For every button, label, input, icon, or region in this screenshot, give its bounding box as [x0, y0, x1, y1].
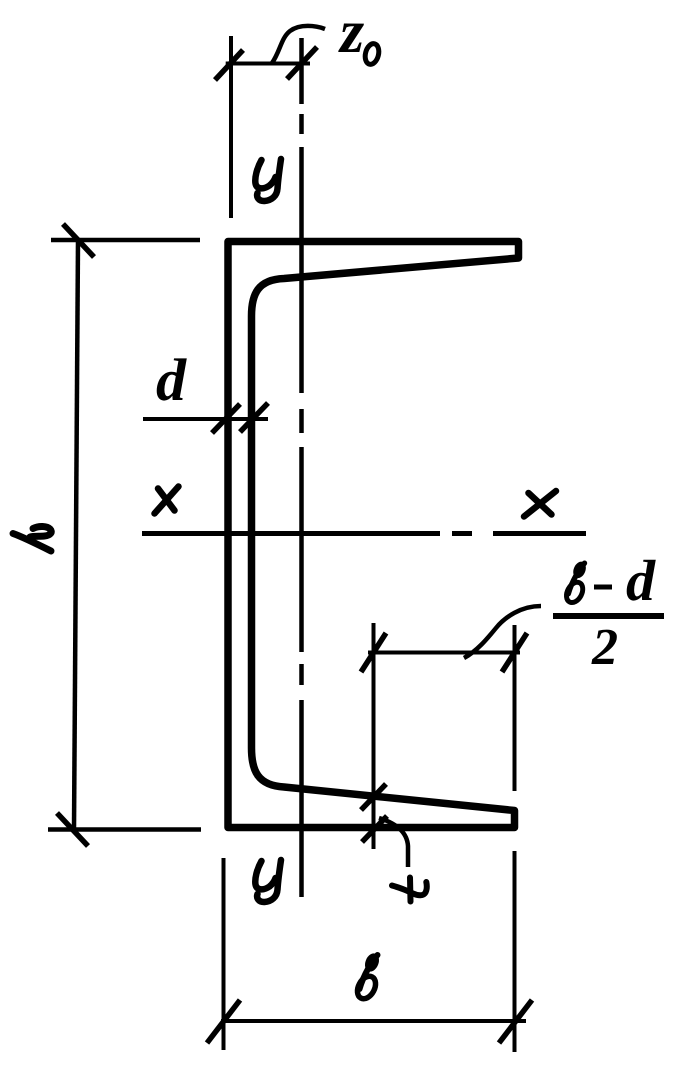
dim line [74, 240, 78, 829]
tick h bottom [57, 813, 88, 846]
tick h top [63, 224, 94, 257]
channel section outline [228, 242, 519, 828]
label z subscript 0 [363, 42, 381, 66]
svg-text:d: d [626, 548, 656, 613]
top extension line [51, 238, 200, 243]
label b [354, 951, 382, 1002]
dimension z0 [226, 36, 310, 218]
label x right [524, 491, 556, 517]
svg-text:z: z [338, 0, 364, 66]
dimension t ticks [361, 784, 387, 842]
y axis centerline [299, 38, 304, 897]
dimension (b-d)/2 [368, 623, 520, 1052]
label x left [155, 487, 179, 514]
leader t [379, 818, 408, 867]
leader z0 [272, 26, 325, 63]
leader (b-d)/2 [464, 606, 541, 658]
x axis centerline [142, 531, 586, 536]
svg-text:d: d [156, 347, 187, 413]
dimension h [48, 240, 201, 830]
svg-text:2: 2 [591, 619, 618, 676]
label t (rotated) [392, 878, 427, 902]
dimension d [143, 417, 268, 421]
fraction bar [553, 613, 664, 619]
label numerator b-d [563, 560, 588, 606]
minus sign in numerator [594, 585, 612, 590]
label h [13, 526, 51, 551]
dimension b [221, 858, 526, 1050]
label y bottom [255, 860, 281, 902]
bottom extension line [48, 827, 201, 832]
label y top [255, 159, 281, 201]
